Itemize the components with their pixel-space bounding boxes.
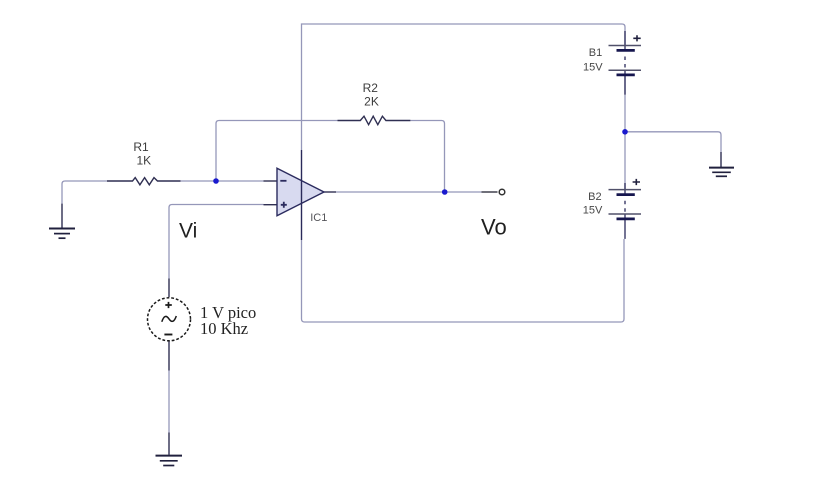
svg-text:1K: 1K: [136, 154, 151, 168]
svg-text:2K: 2K: [364, 95, 379, 109]
svg-text:Vo: Vo: [481, 215, 507, 240]
svg-text:15V: 15V: [583, 205, 603, 217]
svg-text:R2: R2: [363, 81, 379, 95]
svg-text:15V: 15V: [583, 62, 603, 74]
svg-text:B2: B2: [588, 191, 601, 203]
svg-text:B1: B1: [589, 47, 602, 59]
svg-text:IC1: IC1: [310, 212, 327, 224]
svg-text:10 Khz: 10 Khz: [200, 319, 248, 338]
svg-text:Vi: Vi: [179, 220, 197, 243]
svg-text:R1: R1: [133, 140, 149, 154]
